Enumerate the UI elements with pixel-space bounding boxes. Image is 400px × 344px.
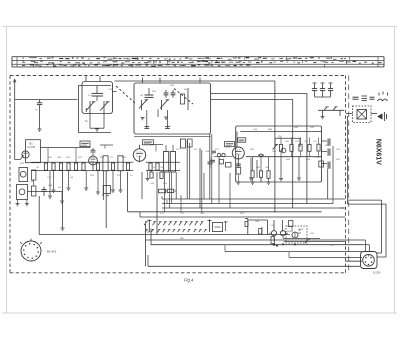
svg-text:B1-B-5: B1-B-5: [47, 250, 57, 254]
svg-text:Fig.4: Fig.4: [184, 278, 194, 283]
svg-text:m: m: [36, 109, 38, 112]
svg-text:B 2356: B 2356: [373, 272, 381, 275]
svg-text:B1: B1: [30, 142, 34, 146]
svg-text:UCC85: UCC85: [28, 147, 36, 149]
svg-text:N6X61V: N6X61V: [375, 139, 382, 165]
